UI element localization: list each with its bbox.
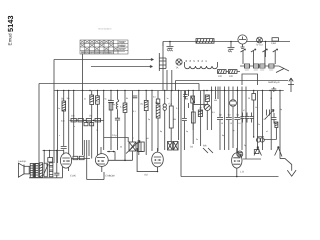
wire <box>73 91 75 157</box>
svg-text:2n: 2n <box>84 98 86 101</box>
IF cap <box>226 118 232 120</box>
tuning indicator circle <box>230 100 237 107</box>
ratio detector box X <box>173 142 178 151</box>
svg-text:2n: 2n <box>258 123 260 126</box>
det resistor <box>205 95 209 102</box>
bottom joining wire <box>29 177 63 179</box>
svg-text:5k: 5k <box>264 118 266 121</box>
coil cap <box>115 118 120 120</box>
wire <box>183 91 185 151</box>
wire <box>270 91 272 151</box>
detector line <box>176 81 289 91</box>
IF transformer circles <box>256 137 264 142</box>
svg-text:5n: 5n <box>105 98 107 101</box>
bottom return wire <box>107 152 115 161</box>
bottom long wire <box>181 176 279 178</box>
heater winding scallops <box>185 66 218 69</box>
resistor row labels <box>245 69 273 71</box>
svg-text:47: 47 <box>243 109 245 112</box>
left feed corner <box>54 59 150 61</box>
svg-text:AM/FM·µS: AM/FM·µS <box>268 81 280 84</box>
wire <box>216 87 221 151</box>
osc coil box <box>144 100 148 110</box>
earth lead <box>282 159 292 171</box>
junction dot <box>108 151 110 153</box>
wire <box>262 91 264 151</box>
svg-text:x: x <box>59 135 60 137</box>
heater link wire <box>226 71 240 73</box>
svg-text:0,5: 0,5 <box>212 111 215 114</box>
output tube EL95 <box>60 153 71 178</box>
svg-text:L: L <box>133 137 134 140</box>
svg-text:1xAM: 1xAM <box>119 48 125 51</box>
svg-text:3p: 3p <box>233 129 235 132</box>
electrolytic <box>49 163 53 177</box>
junction dot <box>265 41 267 43</box>
wire <box>253 91 255 138</box>
svg-text:6p: 6p <box>222 134 224 137</box>
svg-text:1n: 1n <box>58 107 60 110</box>
svg-text:50k: 50k <box>214 99 217 102</box>
wire <box>97 91 99 156</box>
resistor hatched box <box>228 70 237 74</box>
dipole antenna arrow <box>288 78 294 92</box>
svg-text:1n: 1n <box>167 97 169 100</box>
wire <box>200 91 202 147</box>
wire <box>236 87 238 154</box>
hatched resistor <box>156 105 160 118</box>
svg-text:8p: 8p <box>160 130 162 133</box>
fm switch diagonal <box>276 69 284 73</box>
switch lever pair <box>254 147 262 156</box>
svg-text:0,5: 0,5 <box>153 96 156 99</box>
svg-text:3p: 3p <box>148 118 150 121</box>
svg-text:2p: 2p <box>244 144 246 147</box>
output transformer secondary <box>35 164 38 178</box>
am jack <box>237 151 243 157</box>
top resistor <box>252 94 256 101</box>
junction dot <box>169 41 171 43</box>
svg-text:EABC80: EABC80 <box>106 175 116 178</box>
coupling cap <box>61 147 67 149</box>
svg-text:865321: 865321 <box>186 59 210 63</box>
heater feed verticals <box>167 70 176 91</box>
svg-text:12: 12 <box>270 97 272 100</box>
heater taps <box>185 62 218 66</box>
electrolytic cap at x170 <box>167 42 174 52</box>
svg-text:RR: RR <box>203 145 207 148</box>
svg-text:10k: 10k <box>67 97 70 100</box>
svg-text:10: 10 <box>238 122 240 125</box>
wire <box>57 91 59 164</box>
electrolytic cap at x231 <box>228 42 235 53</box>
svg-text:2n: 2n <box>196 138 198 141</box>
AVC corner <box>39 83 199 85</box>
junction dot <box>230 41 232 43</box>
resistor box <box>253 64 258 68</box>
svg-text:10: 10 <box>230 122 232 125</box>
svg-text:1k: 1k <box>255 106 257 109</box>
pad resistor 2 <box>90 123 94 126</box>
wire <box>206 102 208 131</box>
table drop wire <box>82 54 84 91</box>
osc resistor <box>123 103 127 112</box>
title Emud 5143 (vertical) <box>6 16 15 46</box>
stack wire <box>189 87 212 131</box>
tuning arrow <box>265 110 274 120</box>
wire <box>224 87 226 151</box>
speaker <box>18 163 29 177</box>
AVC tall wire <box>33 84 39 164</box>
bottom return drop <box>137 148 157 172</box>
hum pot <box>43 163 48 177</box>
svg-text:5143: 5143 <box>6 16 15 32</box>
svg-text:0,05: 0,05 <box>61 120 65 123</box>
stacked resistor <box>191 112 195 123</box>
svg-text:7p: 7p <box>96 129 98 132</box>
top supply rail <box>163 41 290 43</box>
if hatch box <box>275 122 278 128</box>
pad resistor <box>84 123 88 126</box>
svg-text:Stromlaufplan: Stromlaufplan <box>98 28 112 31</box>
grid resistor <box>90 95 94 105</box>
choke winding <box>39 163 42 178</box>
pad cap <box>133 96 138 98</box>
svg-text:4p: 4p <box>280 108 282 111</box>
boxed cap <box>191 96 195 103</box>
vertical feeds <box>44 151 57 164</box>
series resistor row <box>70 120 104 122</box>
wire <box>103 91 105 151</box>
resistor box <box>244 64 249 68</box>
wire <box>178 91 180 141</box>
output transformer primary <box>30 164 33 178</box>
wire <box>280 91 282 159</box>
svg-text:30: 30 <box>248 97 250 100</box>
screen resistor <box>62 101 66 111</box>
pilot lamp <box>257 37 263 43</box>
transformer core <box>33 164 36 178</box>
wire drop from rail <box>265 42 267 58</box>
link wire <box>193 104 207 106</box>
cap pair <box>240 113 253 123</box>
svg-text:TA: TA <box>176 67 179 70</box>
wire <box>68 91 70 155</box>
wire <box>110 91 112 151</box>
wire <box>117 91 119 151</box>
if wire <box>263 128 276 140</box>
wire <box>257 91 259 151</box>
anode resistor <box>169 106 173 128</box>
AF line <box>91 66 149 68</box>
svg-text:220: 220 <box>229 75 234 78</box>
wire <box>232 87 234 149</box>
mixer tube ECC85 <box>232 148 242 177</box>
bead cap <box>163 104 166 111</box>
agc cap <box>183 91 187 100</box>
wire <box>157 91 159 152</box>
contact bar <box>159 53 166 71</box>
cathode resistor <box>109 103 113 111</box>
svg-text:0,8A: 0,8A <box>271 42 276 45</box>
earth arrow <box>287 170 296 176</box>
speaker top wires <box>24 165 30 174</box>
small box <box>48 158 53 162</box>
trimmer feed stubs <box>243 57 275 64</box>
svg-text:Emud: Emud <box>8 33 13 45</box>
ratio resistor <box>198 110 202 117</box>
svg-text:0,1: 0,1 <box>120 106 123 109</box>
wire <box>228 87 230 151</box>
phono jack <box>176 59 182 65</box>
svg-text:Lautspr.: Lautspr. <box>18 160 27 163</box>
svg-text:0,1µ: 0,1µ <box>112 134 117 137</box>
junction dot <box>113 151 115 153</box>
wire <box>138 91 140 156</box>
IF tube EF89 <box>152 148 164 172</box>
junction dot <box>124 160 126 162</box>
grid resistor 2 <box>96 96 100 104</box>
band switch table <box>80 40 128 54</box>
resistor box <box>269 64 274 68</box>
feeder dots <box>44 150 45 151</box>
box with X <box>129 142 136 151</box>
wire <box>241 87 243 151</box>
feeder wire <box>43 150 64 152</box>
small box right <box>254 150 259 154</box>
cap single <box>272 113 277 124</box>
rail to bus link <box>162 42 164 91</box>
resistor box <box>260 64 265 68</box>
stub down <box>84 140 89 180</box>
grid stopper row <box>72 158 90 160</box>
svg-text:10: 10 <box>221 122 223 125</box>
small coil <box>116 100 119 110</box>
wire <box>82 91 84 156</box>
mains choke (hatched box) <box>196 39 214 44</box>
svg-text:220: 220 <box>218 75 223 78</box>
cap to chassis <box>54 161 59 178</box>
wire <box>164 91 166 151</box>
rail left end drop <box>162 42 164 47</box>
loop wire right <box>242 74 258 85</box>
svg-text:1M: 1M <box>146 137 149 140</box>
pot arrow <box>126 141 140 154</box>
wire <box>192 91 194 145</box>
trimmer box <box>138 142 144 152</box>
svg-text:EL95: EL95 <box>70 175 76 178</box>
wire <box>245 87 247 160</box>
junction dots on bus <box>57 90 281 178</box>
bottom link wire <box>243 158 261 160</box>
svg-text:L.O: L.O <box>240 171 244 174</box>
wire <box>91 91 93 159</box>
neon box <box>156 99 160 104</box>
svg-text:1M: 1M <box>199 107 202 110</box>
svg-text:e1: e1 <box>266 130 268 133</box>
main distribution bus <box>54 90 284 92</box>
wire <box>63 91 65 155</box>
ratio detector box X <box>168 142 173 151</box>
IF cap <box>217 118 223 120</box>
FM trimmer group <box>241 49 278 57</box>
IF cap <box>234 118 240 120</box>
RR switch <box>203 148 213 153</box>
coupling wire <box>104 138 129 143</box>
svg-text:7V 0,3: 7V 0,3 <box>256 44 264 47</box>
wire <box>145 91 147 156</box>
demod tube EABC80 <box>87 147 133 180</box>
bottom stub <box>180 91 182 177</box>
svg-text:30k: 30k <box>173 118 176 121</box>
wire <box>170 91 172 142</box>
svg-text:5p: 5p <box>186 130 188 133</box>
svg-text:50: 50 <box>120 146 122 149</box>
table side text <box>81 41 126 55</box>
svg-text:6k: 6k <box>126 97 128 100</box>
fuse box <box>272 38 278 41</box>
svg-text:1M: 1M <box>95 101 98 104</box>
wire <box>132 91 134 161</box>
switch arrow 1 <box>150 59 154 61</box>
left tall wire <box>53 60 55 164</box>
wire <box>124 91 126 161</box>
switch lever pair 2 <box>275 147 282 157</box>
svg-text:10p: 10p <box>140 103 143 106</box>
switch arrow 2 <box>149 66 153 68</box>
bypass cap <box>108 101 114 103</box>
component value labels <box>58 96 282 149</box>
svg-text:0,1: 0,1 <box>133 110 136 113</box>
potentiometer circle <box>204 105 210 111</box>
svg-text:50: 50 <box>186 98 188 101</box>
cap near bus <box>271 87 276 92</box>
oscillator resistor row wire <box>240 66 289 71</box>
wire <box>151 91 153 152</box>
fm cap <box>182 119 187 121</box>
rectifier meter circle <box>238 35 247 49</box>
svg-text:0,1: 0,1 <box>176 107 179 110</box>
resistor hatched box <box>218 70 227 74</box>
